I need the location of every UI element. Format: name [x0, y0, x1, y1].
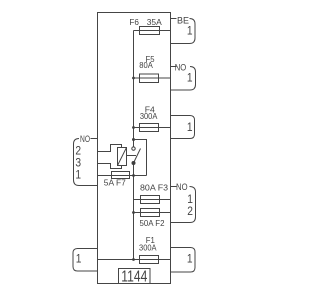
wire : relay coil pin 2: [98, 145, 122, 152]
fuse F4: [140, 124, 159, 132]
fuse F1: [140, 256, 159, 264]
wire : F7 branch: [98, 175, 147, 177]
svg-text:1: 1: [187, 73, 193, 85]
fuse F7: [112, 172, 130, 179]
svg-text:3: 3: [75, 158, 81, 170]
wire : F4 feed: [134, 127, 171, 129]
node : bus to F1 junction: [132, 258, 135, 261]
wire : F2 feed: [134, 212, 171, 214]
svg-text:80A: 80A: [139, 60, 153, 70]
svg-text:300A: 300A: [139, 242, 157, 252]
svg-text:1: 1: [187, 254, 193, 266]
node : bus to F4 junction: [132, 126, 135, 129]
relay actuator link: [127, 155, 137, 157]
fuse F6: [140, 27, 160, 35]
svg-text:35A: 35A: [147, 17, 162, 27]
wire : supply bus lower segment: [133, 163, 135, 260]
svg-text:50A F2: 50A F2: [140, 218, 165, 228]
connector NO pin 1 (upper right): [171, 66, 177, 68]
wire : supply bus upper segment: [133, 31, 135, 147]
svg-text:NO: NO: [80, 134, 90, 144]
svg-text:1: 1: [187, 26, 193, 38]
connector 1 (bottom left): [73, 249, 98, 272]
node : branch above contact: [132, 138, 135, 141]
wire : F3 feed: [134, 199, 171, 201]
main fuse box outline: [98, 13, 171, 284]
svg-text:1: 1: [187, 194, 193, 206]
svg-text:1: 1: [187, 122, 193, 134]
svg-text:NO: NO: [175, 62, 187, 72]
connector 1 (mid right): [171, 116, 195, 139]
svg-text:BE: BE: [177, 15, 189, 25]
wire : F6 feed: [134, 30, 171, 32]
connector 1 (bottom right): [171, 248, 196, 273]
svg-text:80A F3: 80A F3: [140, 182, 168, 192]
component number box 1144: [119, 269, 151, 284]
node : F7 bus junction: [132, 174, 135, 177]
node : bus to F2 junction: [132, 211, 135, 214]
node : relay common: [132, 161, 136, 165]
fuse F3: [141, 196, 160, 204]
wire : F1 feed: [98, 259, 171, 261]
fuse F5: [140, 74, 159, 83]
svg-text:300A: 300A: [140, 111, 158, 121]
svg-text:NO: NO: [176, 182, 188, 192]
relay fixed contact: [132, 147, 135, 150]
svg-text:2: 2: [187, 206, 193, 218]
fuse F2: [141, 209, 160, 217]
svg-text:1: 1: [75, 170, 81, 182]
connector NO pins 2 3 1 (left): [91, 138, 98, 140]
wire : relay coil pin 3: [98, 164, 122, 169]
wire : F5 feed: [134, 77, 171, 79]
svg-text:1: 1: [76, 254, 82, 266]
connector NO pins 1 2 (lower right): [171, 186, 177, 188]
connector BE pin 1: [171, 18, 177, 20]
relay switch blade: [134, 149, 141, 164]
svg-text:F6: F6: [129, 17, 139, 27]
node : bus to F5 junction: [132, 77, 135, 80]
svg-text:5A F7: 5A F7: [104, 177, 126, 187]
svg-text:1144: 1144: [121, 269, 147, 286]
wire : relay bypass branch: [134, 140, 147, 176]
relay K1 coil: [118, 148, 127, 166]
svg-text:2: 2: [75, 146, 81, 158]
